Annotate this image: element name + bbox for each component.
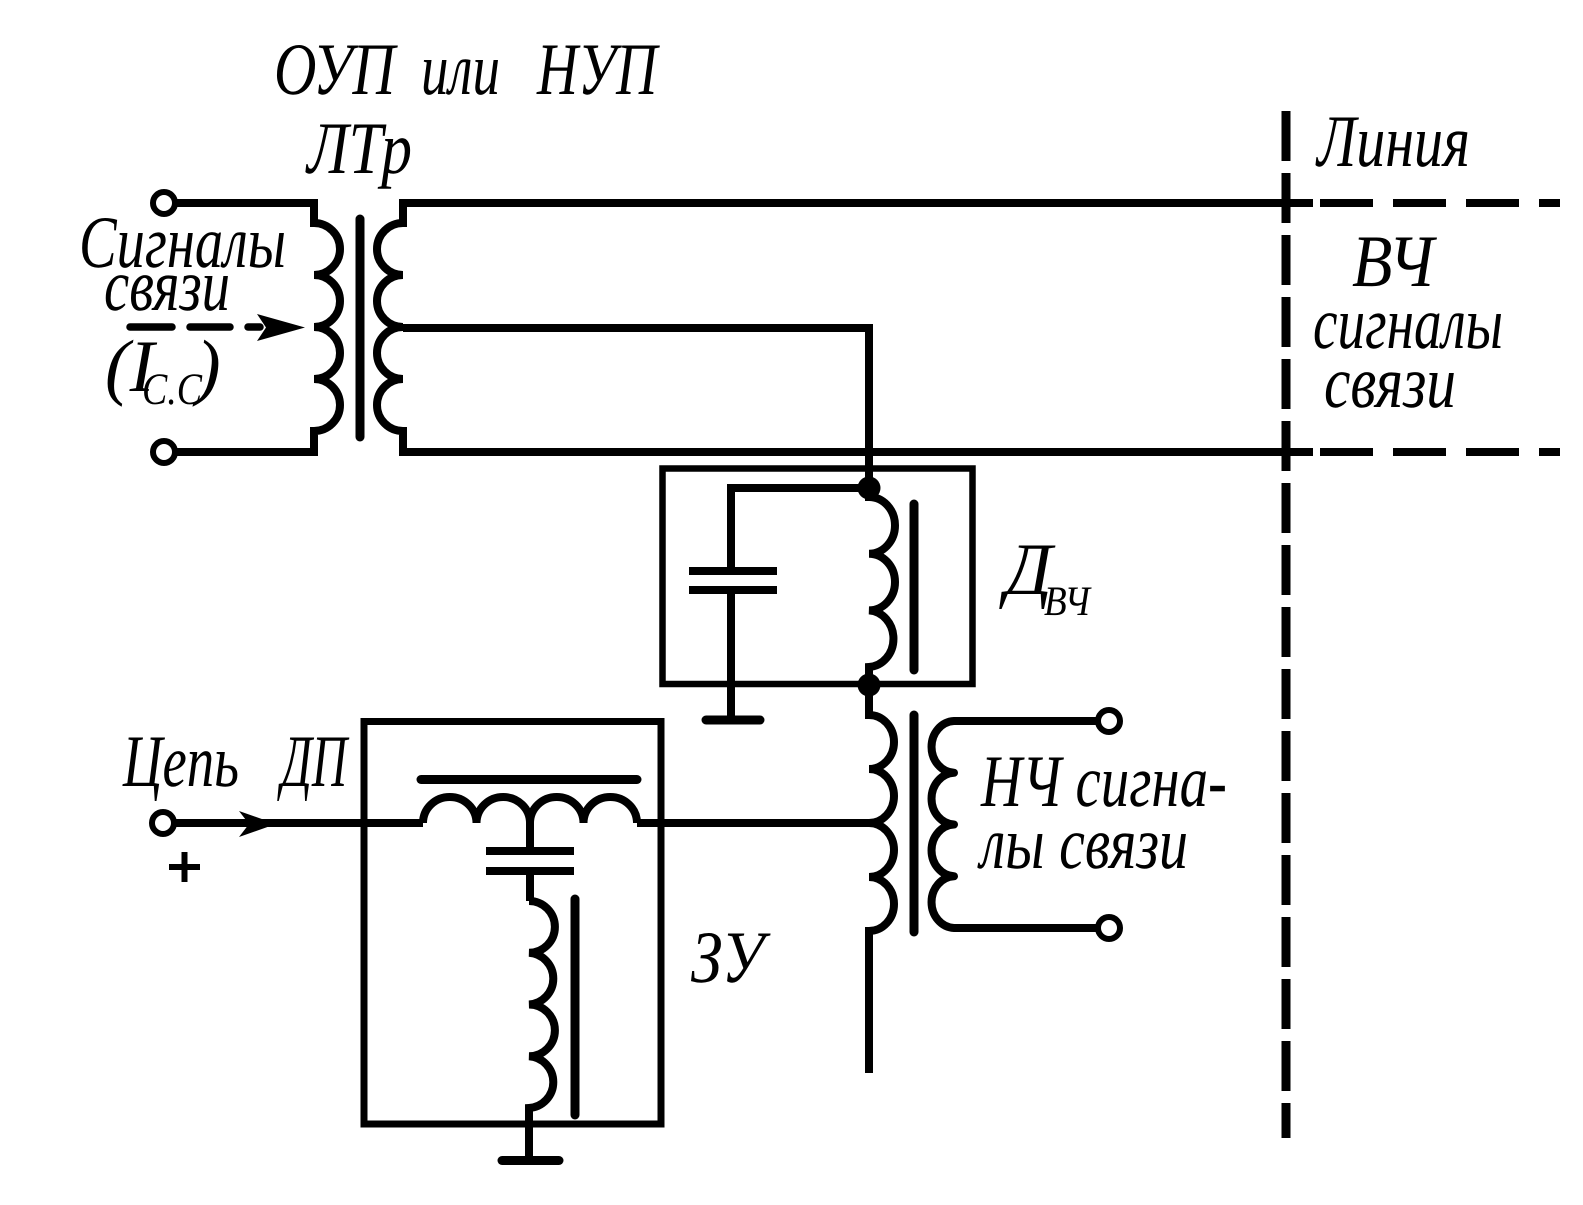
svg-text:): ) — [192, 326, 221, 408]
svg-text:лы связи: лы связи — [977, 803, 1188, 885]
svg-text:связи: связи — [104, 245, 230, 327]
svg-text:ДП: ДП — [277, 721, 350, 803]
svg-text:ВЧ: ВЧ — [1044, 579, 1092, 625]
svg-text:НУП: НУП — [536, 29, 660, 111]
svg-text:ЗУ: ЗУ — [691, 917, 771, 999]
svg-text:ЛТр: ЛТр — [305, 108, 412, 190]
svg-text:Цепь: Цепь — [122, 721, 239, 803]
svg-text:Линия: Линия — [1315, 101, 1470, 183]
svg-text:или: или — [421, 29, 500, 111]
svg-text:ОУП: ОУП — [274, 29, 399, 111]
svg-text:связи: связи — [1324, 342, 1456, 424]
svg-text:С.С: С.С — [142, 364, 203, 414]
